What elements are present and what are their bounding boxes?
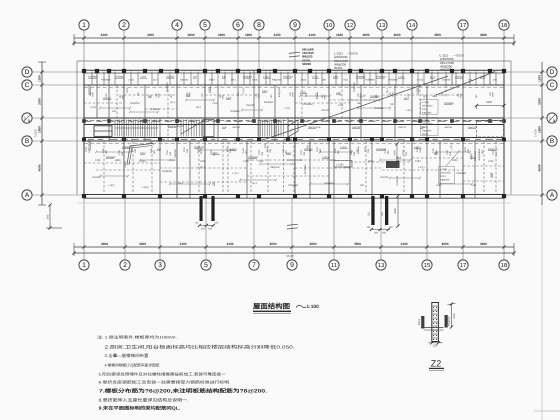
interior small dimension marks (95, 95, 473, 186)
dimension line left (34, 62, 47, 205)
filled wall rect 2 (203, 120, 214, 137)
left axis grid circles (22, 67, 84, 77)
beam text block L-1 lower-right (439, 150, 461, 184)
right axis grid circles (504, 67, 557, 77)
column Z2 pair right below plan (366, 194, 399, 234)
axis 9 break symbol top (289, 52, 300, 57)
D-C strip room dividers (92, 72, 496, 85)
stair parallelogram LT-3 (288, 120, 298, 137)
Z2 column detail (418, 302, 456, 347)
sheet border line right (541, 205, 543, 420)
rotated beam label pairs upper band (89, 91, 495, 99)
dimension line top (72, 33, 515, 46)
beam label block dense cluster above plan (302, 48, 314, 66)
drawing title (253, 303, 319, 314)
corridor band dashes (86, 121, 502, 139)
interior vertical dim 2400 (394, 142, 399, 163)
plan interior vertical beams (97, 70, 490, 198)
mid-band dim labels (95, 159, 494, 163)
Z2 detail label (429, 359, 444, 371)
staircase treads left (94, 120, 158, 137)
roof eave outline (77, 61, 511, 203)
plan tiny annotation labels (88, 76, 498, 190)
beam label block L-1 above plan (440, 54, 464, 72)
boxed label L=150 a (334, 161, 352, 168)
notes text block (97, 335, 295, 411)
beam text block L-4 center-right (421, 100, 439, 115)
dim 2400 interior right (475, 101, 506, 109)
sheet border line bottom-right (534, 410, 560, 412)
long leader diagonal 1 (266, 76, 448, 139)
dimension line right (534, 62, 544, 205)
column Z2 pair left below plan (195, 196, 219, 231)
bottom axis grid circles (79, 198, 89, 270)
column squares (82, 69, 506, 198)
long leader diagonal 2 (436, 72, 495, 96)
staircase hatch center-left (181, 120, 204, 137)
beam label block L-2 above plan (334, 52, 358, 71)
rotated beam label right (470, 151, 481, 162)
beam text block L-2 center-right (421, 118, 439, 137)
dimension line bottom (72, 242, 515, 258)
interior vertical dim 760 left (307, 141, 311, 152)
dashed room right (477, 121, 505, 138)
staircase treads center (258, 120, 283, 137)
plan outer walls (84, 70, 504, 198)
boxed label L=150 b (386, 161, 400, 168)
top axis grid circles (79, 20, 89, 71)
left below-plan 500 dimension (46, 203, 62, 229)
rotated beam label pairs lower band (85, 147, 498, 156)
axis 9 break symbol bottom (287, 224, 298, 229)
leader diagonal small lower-left (127, 142, 154, 165)
plan interior dashed wall lines (84, 85, 504, 195)
